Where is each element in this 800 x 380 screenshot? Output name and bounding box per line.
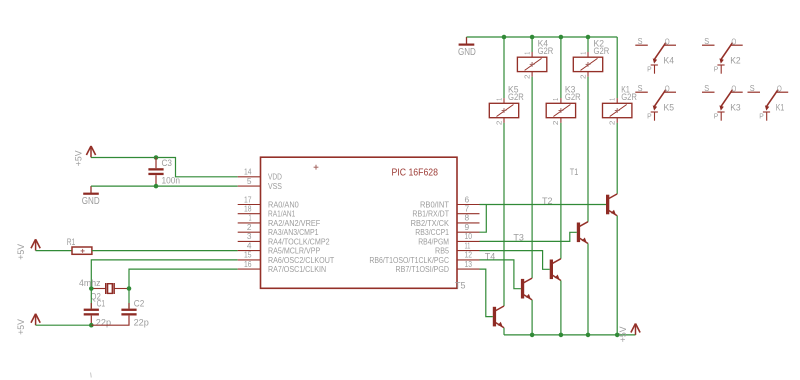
svg-text:100n: 100n: [162, 175, 181, 185]
wire T1 emitter to +5V rail: [616, 216, 618, 335]
pin 1 RA2/AN2/VREF: [238, 214, 321, 228]
wire R1 to MCLR pin 4: [92, 250, 238, 252]
resistor R1: [67, 237, 92, 255]
pin 4 RA5/MCLR/VPP: [238, 241, 321, 255]
wire rail to relay K3: [560, 37, 562, 98]
svg-text:RB6/T1OSO/T1CLK/PGC: RB6/T1OSO/T1CLK/PGC: [369, 256, 449, 265]
svg-text:15: 15: [244, 251, 252, 260]
svg-text:RA6/OSC2/CLKOUT: RA6/OSC2/CLKOUT: [268, 256, 334, 265]
transistor T5: [455, 281, 504, 328]
wire relay K5 to T5 collector: [503, 123, 505, 306]
svg-text:+5V: +5V: [73, 150, 83, 166]
wire pin 10 to T2 base: [480, 232, 577, 241]
svg-text:C1: C1: [97, 298, 106, 308]
wire +5V to C1/C2 node: [36, 324, 92, 326]
junction rail-K4: [530, 35, 535, 40]
wire C3 bottom to VSS net: [155, 175, 157, 186]
crystal Q2 4mhz: [79, 278, 129, 301]
svg-text:K1: K1: [776, 103, 785, 113]
junction crystal right: [127, 286, 132, 291]
svg-text:1: 1: [522, 52, 531, 55]
svg-text:13: 13: [465, 260, 473, 269]
wire pin 6 to T1 base: [480, 204, 607, 206]
switch contact K3: [702, 84, 743, 121]
pin 2 RA3/AN3/CMP1: [238, 223, 319, 237]
svg-text:GND: GND: [82, 196, 100, 207]
junction rail-K5: [502, 35, 507, 40]
ground GND (top, relay rail): [458, 37, 476, 58]
svg-text:22p: 22p: [96, 317, 111, 327]
svg-text:P: P: [714, 111, 719, 120]
svg-text:RA0/AN0: RA0/AN0: [268, 200, 299, 209]
svg-text:2: 2: [578, 74, 587, 79]
transistor T2: [542, 196, 588, 243]
svg-text:RB1/RX/DT: RB1/RX/DT: [412, 210, 449, 219]
pin 7 RB1/RX/DT: [412, 205, 479, 219]
power +5V supply (R1, left): [16, 239, 40, 260]
transistor T1: [570, 167, 617, 216]
wire GND to VSS pin 5: [91, 185, 238, 187]
svg-text:8: 8: [465, 214, 470, 223]
svg-text:C2: C2: [134, 298, 145, 308]
wire relay K2 to T2 collector: [587, 77, 589, 222]
svg-text:K4: K4: [664, 56, 675, 66]
svg-text:4mhz: 4mhz: [79, 278, 100, 288]
relay K4 G2R: [517, 39, 553, 79]
svg-text:2: 2: [522, 74, 531, 79]
wire pin 12 to T4 base: [480, 260, 521, 289]
wire relay K3 to T3 collector: [560, 123, 562, 259]
wire T5 emitter to +5V rail: [503, 328, 505, 335]
junction rail-K3: [559, 35, 564, 40]
wire relay K1 to T1 collector: [616, 123, 618, 194]
svg-text:RB4/PGM: RB4/PGM: [418, 237, 449, 246]
svg-text:14: 14: [244, 168, 252, 177]
svg-text:S: S: [704, 84, 709, 93]
svg-text:VSS: VSS: [268, 182, 282, 191]
wire pin 16 OSC1 to crystal node: [129, 269, 238, 288]
pin 14 VDD: [238, 168, 283, 182]
svg-text:7: 7: [465, 205, 470, 214]
junction rail-T2 emitter: [586, 333, 591, 338]
wire relay K4 to T4 collector: [531, 77, 533, 278]
wire C3 junction to VDD pin 14: [156, 158, 238, 177]
svg-text:2: 2: [551, 121, 560, 126]
svg-text:T5: T5: [455, 281, 466, 291]
pin 15 RA6/OSC2/CLKOUT: [238, 251, 335, 265]
svg-text:17: 17: [244, 195, 252, 204]
switch contact K4: [635, 37, 676, 74]
svg-text:RA2/AN2/VREF: RA2/AN2/VREF: [268, 219, 321, 228]
relay K3 G2R: [546, 85, 580, 125]
svg-text:G2R: G2R: [594, 46, 610, 56]
junction at C3 bottom: [154, 184, 159, 189]
pin 10 RB4/PGM: [418, 232, 479, 246]
svg-text:S: S: [638, 37, 643, 46]
svg-text:4: 4: [247, 241, 252, 250]
wire rail to relay K1: [616, 37, 618, 98]
svg-text:T1: T1: [570, 167, 579, 177]
svg-text:9: 9: [465, 223, 470, 232]
svg-text:P: P: [647, 111, 652, 120]
svg-text:2: 2: [494, 121, 503, 126]
pin 11 RB5: [435, 241, 479, 255]
relay K1 G2R: [603, 85, 637, 125]
wire pin 15 OSC2 to crystal node: [91, 260, 237, 289]
svg-text:RA5/MCLR/VPP: RA5/MCLR/VPP: [268, 247, 320, 256]
wire crystal node down to C1: [90, 289, 92, 309]
svg-text:O: O: [777, 84, 782, 93]
pin 13 RB7/T1OSI/PGD: [396, 260, 480, 274]
svg-text:G2R: G2R: [621, 92, 637, 102]
junction rail-T3 emitter: [559, 333, 564, 338]
wire +5V to C3 junction: [91, 157, 156, 159]
svg-text:RB0/INT: RB0/INT: [420, 200, 449, 209]
svg-text:S: S: [750, 84, 755, 93]
relay K5 G2R: [489, 85, 523, 125]
svg-text:1: 1: [494, 98, 503, 101]
svg-text:C3: C3: [162, 158, 173, 168]
wire +5V to R1: [36, 250, 72, 252]
svg-text:GND: GND: [458, 47, 476, 58]
svg-text:R1: R1: [67, 237, 76, 247]
wire rail to relay K2: [587, 37, 589, 52]
junction rail-K2: [586, 35, 591, 40]
ground GND (left): [82, 186, 100, 207]
power +5V supply (bottom right): [618, 324, 640, 343]
junction at C1 bottom: [89, 323, 94, 328]
svg-text:18: 18: [244, 205, 252, 214]
power +5V supply (top left): [73, 146, 95, 166]
pin 17 RA0/AN0: [238, 195, 300, 209]
junction crystal left: [89, 286, 94, 291]
pin 8 RB2/TX/CK: [411, 214, 480, 228]
svg-text:G2R: G2R: [508, 92, 524, 102]
svg-text:G2R: G2R: [538, 46, 554, 56]
svg-text:O: O: [665, 37, 670, 46]
svg-text:6: 6: [465, 195, 470, 204]
junction rail-T1 emitter: [615, 333, 620, 338]
svg-text:2: 2: [608, 121, 617, 126]
stray mark bottom left: [90, 373, 93, 378]
pin 9 RB3/CCP1: [415, 223, 479, 237]
transistor T3: [513, 233, 561, 281]
svg-text:+5V: +5V: [16, 319, 26, 335]
svg-text:P: P: [714, 64, 719, 73]
svg-text:RA3/AN3/CMP1: RA3/AN3/CMP1: [268, 228, 319, 237]
wire rail to relay K5: [503, 37, 505, 98]
svg-text:S: S: [704, 37, 709, 46]
svg-text:RB5: RB5: [435, 247, 450, 256]
svg-text:3: 3: [247, 232, 252, 241]
wire rail to relay K4: [531, 37, 533, 52]
svg-text:2: 2: [247, 223, 252, 232]
pin 18 RA1/AN1: [238, 205, 296, 219]
svg-text:+5V: +5V: [16, 244, 26, 260]
svg-text:RB7/T1OSI/PGD: RB7/T1OSI/PGD: [396, 265, 450, 274]
pin 12 RB6/T1OSO/T1CLK/PGC: [369, 251, 479, 265]
wire C2 bottom to bottom node: [91, 316, 129, 326]
capacitor C1 22p: [84, 298, 111, 327]
svg-text:K3: K3: [730, 103, 741, 113]
wire pin 11 to T3 base: [480, 251, 550, 270]
svg-text:PIC 16F628: PIC 16F628: [392, 168, 439, 179]
wire crystal node down to C2: [128, 289, 130, 309]
power +5V supply (bottom left): [16, 314, 40, 335]
svg-text:O: O: [731, 84, 736, 93]
capacitor C3 100n: [148, 158, 180, 186]
pin 5 VSS: [238, 177, 282, 191]
svg-text:22p: 22p: [134, 317, 149, 327]
wire T4 emitter to +5V rail: [531, 300, 533, 335]
svg-text:5: 5: [247, 177, 252, 186]
svg-text:12: 12: [465, 251, 473, 260]
pin 6 RB0/INT: [420, 195, 480, 209]
svg-text:S: S: [638, 84, 643, 93]
svg-text:16: 16: [244, 260, 252, 269]
relay K2 G2R: [573, 39, 609, 79]
svg-text:+5V: +5V: [618, 326, 628, 342]
pin 3 RA4/TOCLK/CMP2: [238, 232, 330, 246]
svg-text:1: 1: [249, 214, 252, 223]
wire pin 9 branch to T1 base net: [480, 205, 487, 233]
svg-text:RA7/OSC1/CLKIN: RA7/OSC1/CLKIN: [268, 265, 326, 274]
svg-text:RA1/AN1: RA1/AN1: [268, 210, 295, 219]
svg-text:10: 10: [465, 232, 473, 241]
svg-text:RB2/TX/CK: RB2/TX/CK: [411, 219, 450, 228]
svg-text:O: O: [731, 37, 736, 46]
switch contact K5: [635, 84, 676, 121]
wire bottom +5V rail: [504, 334, 636, 336]
wire T3 emitter to +5V rail: [560, 281, 562, 335]
svg-text:K2: K2: [730, 56, 741, 66]
svg-text:11: 11: [465, 241, 471, 250]
svg-text:VDD: VDD: [268, 173, 282, 182]
svg-text:1: 1: [608, 98, 617, 101]
capacitor C2 22p: [121, 298, 149, 327]
switch contact K1: [748, 84, 789, 121]
pin 16 RA7/OSC1/CLKIN: [238, 260, 326, 274]
wire C1 bottom to bottom node: [90, 316, 92, 326]
wire pin 13 to T5 base: [480, 269, 493, 317]
svg-text:G2R: G2R: [565, 92, 581, 102]
svg-text:1: 1: [578, 52, 587, 55]
svg-text:RB3/CCP1: RB3/CCP1: [415, 228, 449, 237]
svg-text:P: P: [647, 64, 652, 73]
svg-text:1: 1: [551, 98, 560, 101]
junction rail-T4 emitter: [530, 333, 535, 338]
junction at C3 top: [154, 155, 159, 160]
wire T2 emitter to +5V rail: [587, 244, 589, 335]
transistor T4: [485, 252, 532, 300]
svg-text:RA4/TOCLK/CMP2: RA4/TOCLK/CMP2: [268, 237, 330, 246]
wire top GND rail: [467, 36, 618, 38]
svg-text:O: O: [665, 84, 670, 93]
switch contact K2: [702, 37, 743, 74]
svg-text:K5: K5: [664, 103, 675, 113]
IC PIC 16F628: [261, 157, 458, 288]
svg-text:P: P: [759, 111, 764, 120]
